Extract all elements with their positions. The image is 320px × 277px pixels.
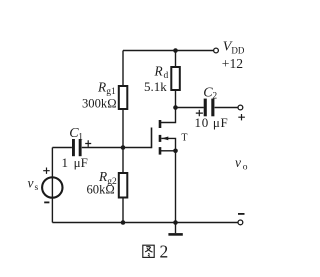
svg-text:10 μF: 10 μF — [195, 115, 229, 130]
label - polarity output — [238, 213, 245, 215]
svg-text:o: o — [243, 163, 248, 173]
svg-text:2: 2 — [212, 91, 217, 101]
svg-text:1: 1 — [78, 133, 83, 143]
svg-text:300kΩ: 300kΩ — [82, 97, 117, 111]
label + polarity right of C1 — [85, 140, 91, 147]
svg-text:T: T — [181, 132, 187, 143]
source wire — [160, 150, 176, 152]
wire source to bottom rail — [175, 151, 177, 223]
label + polarity vs — [43, 168, 50, 174]
label + polarity left of C2 — [196, 110, 203, 116]
capacitor C1 — [52, 126, 87, 170]
ground — [168, 223, 182, 235]
drain wire — [160, 108, 176, 123]
svg-text:5.1k: 5.1k — [144, 79, 167, 94]
terminal vo+ open circle — [238, 105, 243, 110]
terminal VDD open circle — [214, 48, 219, 53]
drain channel bar — [159, 120, 162, 128]
caption 图 2 — [143, 241, 168, 261]
wire top rail VDD — [123, 50, 213, 52]
svg-text:1: 1 — [62, 155, 69, 170]
label vo — [235, 155, 248, 173]
wire bottom rail — [52, 222, 238, 224]
svg-text:R: R — [97, 79, 106, 94]
body channel bar — [159, 135, 162, 142]
node junction dot top of Rd — [173, 48, 178, 53]
label + polarity output — [238, 114, 245, 120]
svg-text:s: s — [35, 183, 39, 193]
label VDD +12 — [222, 39, 245, 71]
svg-text:R: R — [154, 64, 163, 79]
resistor Rd — [144, 51, 180, 108]
svg-text:DD: DD — [231, 46, 244, 56]
svg-text:v: v — [28, 175, 34, 190]
terminal vo- open circle — [238, 220, 243, 225]
svg-text:+12: +12 — [222, 56, 243, 71]
node junction dot Rg1/Rg2 — [121, 145, 126, 150]
gate line — [151, 128, 153, 149]
source channel bar — [159, 147, 162, 155]
node junction dot ground — [173, 220, 178, 225]
transistor T (n-MOSFET) — [152, 108, 188, 155]
wire C1 to gate with Rg junction — [82, 147, 152, 149]
node junction dot Rg2 bottom — [121, 220, 126, 225]
body wire with arrow — [161, 138, 175, 150]
svg-text:g1: g1 — [106, 87, 116, 97]
resistor Rg1 — [82, 51, 127, 148]
node junction dot source/body — [173, 149, 178, 154]
svg-text:60kΩ: 60kΩ — [87, 183, 115, 197]
svg-text:v: v — [235, 155, 241, 170]
label - polarity vs — [44, 201, 49, 203]
node junction dot Rd bottom / drain / C2 — [173, 105, 178, 110]
capacitor C2 — [176, 85, 239, 130]
svg-text:μF: μF — [74, 155, 88, 170]
resistor Rg2 — [87, 148, 128, 223]
source vs — [28, 148, 63, 223]
svg-text:2: 2 — [160, 241, 169, 261]
